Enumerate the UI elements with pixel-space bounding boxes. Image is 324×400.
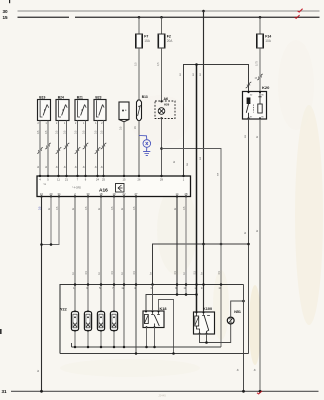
svg-text:N51: N51 — [234, 310, 241, 314]
wire bus A — [72, 346, 222, 348]
fuse F7 — [136, 34, 151, 48]
wire sensor pin x=85.5 — [85, 121, 87, 177]
svg-text:sw: sw — [217, 173, 220, 176]
wire 15 to F14 — [259, 17, 261, 34]
connector — [95, 148, 101, 154]
svg-text:* 4-GRD: * 4-GRD — [72, 187, 81, 190]
control unit A16 — [37, 176, 191, 197]
group box outline — [60, 285, 244, 354]
svg-text:sw: sw — [199, 73, 202, 76]
svg-text:br: br — [174, 208, 177, 210]
svg-text:sw: sw — [244, 135, 247, 138]
node merge on pin10 wire — [40, 243, 43, 246]
wire N51 top loop — [231, 301, 244, 317]
node bus B pin27 wire — [135, 352, 138, 355]
svg-text:20A: 20A — [167, 39, 174, 43]
svg-text:J2445: J2445 — [158, 394, 166, 398]
svg-text:br: br — [244, 232, 247, 234]
wire A16 pin10 to 31 — [41, 197, 43, 392]
svg-text:br: br — [37, 166, 40, 168]
wire A16 to injector x=114 — [113, 197, 115, 311]
wire sensor pin x=66.5 — [66, 121, 68, 177]
blue annotation: ground test point — [139, 136, 151, 156]
svg-text:br: br — [98, 208, 101, 210]
svg-text:Y22: Y22 — [60, 308, 67, 312]
wire F7 to B13 — [138, 48, 140, 100]
svg-text:30: 30 — [3, 9, 9, 14]
node lamp wire branch — [160, 147, 163, 150]
node H1-lamp branch junction — [220, 243, 223, 246]
wire A16 pin27 to bus B — [135, 197, 137, 354]
sensor B23 — [94, 95, 106, 125]
wire rail to K100 coil — [196, 65, 198, 313]
injector Y22.4 — [110, 310, 117, 332]
svg-text:br: br — [45, 166, 48, 168]
svg-text:B19: B19 — [39, 95, 45, 99]
svg-text:F7: F7 — [144, 35, 148, 39]
connector — [101, 143, 107, 149]
connector — [83, 143, 89, 149]
node 31 group ground — [242, 390, 245, 393]
node 31 K20 ground — [259, 390, 262, 393]
red check mark on bus 30 — [298, 9, 303, 12]
wire K18 87 to bus A — [154, 327, 156, 347]
wire 30-feed to K100 contact — [203, 244, 205, 312]
svg-text:15A: 15A — [144, 39, 151, 43]
node A6 bottom pin — [160, 117, 162, 119]
wire H1 horizontal rail — [153, 244, 249, 311]
valve N51 — [227, 310, 241, 324]
node bus A x=146.5 — [145, 346, 148, 349]
relay K20 — [243, 85, 271, 120]
wire A16 pin28 down — [185, 197, 187, 295]
wire A16 to injector x=75 — [74, 197, 76, 311]
svg-text:br: br — [75, 166, 78, 168]
wires injectors to bus A — [74, 332, 76, 347]
fuse F2 — [158, 34, 173, 48]
svg-text:br: br — [72, 208, 75, 210]
sensor B13 — [137, 95, 148, 121]
wire F2 to A6 — [161, 48, 163, 101]
wire 30 down to H1 rail — [203, 11, 205, 244]
wire sensor pin x=58.5 — [58, 121, 60, 177]
wires K100 bottom to N51 — [200, 324, 231, 343]
node merge pin20 — [50, 243, 53, 246]
wire bus B — [60, 353, 249, 355]
node F2 tap on 15 — [160, 16, 163, 19]
svg-text:H29: H29 — [164, 102, 170, 106]
connector — [56, 148, 62, 154]
wire K20 87 down to group — [248, 118, 250, 353]
injector Y22.1 — [71, 310, 78, 332]
node A6 top pin — [160, 100, 162, 102]
svg-text:0,5: 0,5 — [157, 62, 160, 66]
wire B13 to A16 pin26 — [138, 121, 140, 177]
wire bus A left hook — [71, 343, 73, 347]
wire A16 pin22 to bus A — [123, 197, 125, 348]
svg-text:br: br — [150, 272, 153, 274]
control module A6 — [155, 97, 175, 118]
lamp H29 — [158, 108, 165, 115]
svg-text:sw: sw — [199, 157, 202, 160]
relay K18 — [143, 307, 166, 328]
svg-text:10A: 10A — [265, 39, 272, 43]
fuse F14 — [257, 34, 272, 48]
svg-text:K20: K20 — [262, 85, 270, 90]
node rail to K100 feed — [195, 63, 198, 66]
wire sensor pin x=40 — [39, 121, 41, 177]
svg-text:br: br — [37, 370, 40, 372]
svg-text:br: br — [83, 166, 86, 168]
svg-text:br: br — [72, 272, 75, 274]
node F7 tap on 15 — [138, 16, 141, 19]
wire junction row y=294.5 — [146, 295, 197, 312]
wire branch down to bus A — [220, 244, 222, 347]
svg-text:F2: F2 — [167, 35, 171, 39]
svg-text:br: br — [121, 272, 124, 274]
thermo switch B4 — [119, 102, 129, 122]
wire K18 loop to bus B — [159, 300, 174, 354]
wire B4 to A16 pin15 — [123, 122, 125, 176]
red check mark on bus 15 — [295, 15, 300, 18]
wire 15 to F7 — [138, 17, 140, 34]
node bus A x=124 — [123, 346, 126, 349]
wire group box right edge to 31 — [243, 285, 245, 392]
wire K20 85 to 31 — [259, 118, 261, 391]
node bus A x=88 — [87, 346, 90, 349]
node N51 loop join — [242, 300, 245, 303]
wire sensor pin x=48 — [47, 121, 49, 177]
connector — [37, 148, 43, 154]
wire bus 30 — [18, 10, 320, 12]
wire A16 pin14 down — [176, 197, 178, 295]
node bus A x=114 — [113, 346, 116, 349]
wire K18 to bus A — [146, 327, 148, 347]
connector on F14 wire — [257, 74, 263, 80]
node pin14 join — [176, 293, 179, 296]
nodes A16 bottom pins — [40, 195, 42, 197]
svg-text:B23: B23 — [95, 95, 101, 99]
svg-text:br: br — [254, 369, 257, 371]
node bus A x=101 — [100, 346, 103, 349]
svg-text:br: br — [183, 272, 186, 274]
svg-text:B21: B21 — [77, 95, 83, 99]
relay K100 — [194, 307, 215, 335]
node F14 tap on 15 — [259, 16, 262, 19]
connector — [75, 148, 81, 154]
svg-text:br: br — [95, 166, 98, 168]
svg-text:br: br — [56, 166, 59, 168]
sensor B21 — [75, 95, 88, 125]
svg-text:B13: B13 — [142, 95, 148, 99]
node K100 feed tap on 30 — [202, 10, 205, 13]
svg-text:br: br — [101, 166, 104, 168]
svg-text:br: br — [201, 272, 204, 274]
sensor B19 — [37, 95, 50, 125]
page border tick left — [0, 329, 2, 334]
wire sensor pin x=77.5 — [77, 121, 79, 177]
connector — [64, 143, 70, 149]
node K100 feed join — [195, 293, 198, 296]
node pin28 join — [185, 293, 188, 296]
wire entry to K18 — [152, 285, 154, 312]
wire K100 87 — [206, 333, 208, 342]
node bus A x=154.5 — [153, 346, 156, 349]
paper stains (decorative) — [60, 40, 323, 377]
wire H29 to A16 pin29 — [161, 118, 163, 176]
svg-text:0,75: 0,75 — [256, 61, 259, 66]
nodes A16 top pins — [39, 175, 41, 177]
svg-text:sw: sw — [192, 73, 195, 76]
injector Y22.3 — [97, 310, 104, 332]
wire A16 to injector x=88 — [87, 197, 89, 311]
wire A16 to injector x=101 — [100, 197, 102, 311]
svg-text:br: br — [98, 272, 101, 274]
sensor B24 — [56, 95, 69, 125]
node 31 left ground — [40, 390, 43, 393]
svg-text:B24: B24 — [58, 95, 64, 99]
svg-text:br: br — [48, 208, 51, 210]
node bus B K18 loop — [172, 352, 175, 355]
svg-text:br: br — [64, 166, 67, 168]
node H1-K20 junction — [247, 243, 250, 246]
svg-text:br: br — [121, 208, 124, 210]
nodes group box entries — [74, 283, 77, 286]
svg-text:sw: sw — [179, 73, 182, 76]
wire bus 15 — [18, 16, 320, 18]
svg-text:br: br — [236, 369, 239, 371]
connector on K20 wire — [246, 82, 252, 88]
wire F14 to K20 — [259, 48, 261, 92]
svg-text:31: 31 — [2, 389, 8, 394]
svg-text:K100: K100 — [203, 307, 212, 311]
svg-text:F14: F14 — [265, 35, 271, 39]
svg-text:br: br — [256, 230, 259, 232]
injector Y22.2 — [84, 310, 91, 332]
wire 15 to F2 — [161, 17, 163, 34]
wire bus 31 — [11, 390, 319, 392]
wire lamp branch to group box — [162, 149, 222, 245]
wire sensor pin x=97.5 — [97, 121, 99, 177]
svg-text:br: br — [256, 136, 259, 138]
wire K20 output rail — [184, 65, 249, 176]
svg-text:br: br — [173, 161, 176, 163]
red check mark on bus 31 — [257, 391, 262, 394]
connector — [45, 143, 51, 149]
wire sensor pin x=103.5 — [103, 121, 105, 177]
page border tick — [9, 0, 10, 3]
svg-text:15: 15 — [3, 15, 9, 20]
node H1-K100feed junction — [202, 243, 205, 246]
svg-text:0,5: 0,5 — [135, 62, 138, 66]
node K100 87 join — [205, 341, 208, 344]
wire pins 20/34 merge — [42, 197, 60, 245]
node bus A x=75 — [74, 346, 77, 349]
